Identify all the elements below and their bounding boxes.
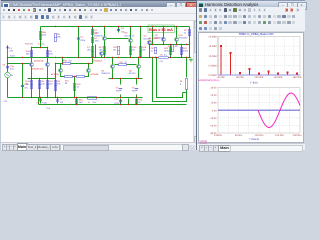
chart2 y labels [210, 87, 217, 136]
node J31 [55, 57, 56, 58]
svg-text:15.00M: 15.00M [209, 45, 217, 48]
ground symbol output [189, 58, 193, 62]
node J44 [130, 57, 131, 58]
node J28 [57, 97, 58, 98]
node J4 [104, 26, 105, 27]
resistor R10 [63, 60, 73, 65]
node J22 [31, 97, 32, 98]
node J32 [62, 57, 63, 58]
svg-text:2k2: 2k2 [68, 60, 72, 63]
node J66 [189, 57, 190, 58]
node J58 [181, 44, 182, 45]
schematic canvas [1, 21, 193, 142]
svg-text:39.6: 39.6 [42, 34, 47, 37]
annotation bias text [148, 25, 175, 43]
node J10 [176, 26, 177, 27]
node J45 [138, 57, 139, 58]
node J50 [136, 78, 137, 79]
wire diode chain branch [92, 27, 94, 58]
node J41 [104, 57, 105, 58]
transistor Q7 [144, 35, 152, 45]
node J8 [152, 26, 153, 27]
svg-text:2n2: 2n2 [60, 101, 64, 104]
node J42 [112, 57, 113, 58]
node J2 [78, 26, 79, 27]
svg-text:0.00: 0.00 [212, 109, 217, 112]
svg-text:BC556B: BC556B [51, 73, 59, 76]
node J65 [186, 57, 187, 58]
wire mirror stub [101, 56, 103, 58]
resistor R19 [75, 99, 83, 105]
capacitor C10 [114, 98, 122, 105]
svg-text:Q9: Q9 [155, 34, 159, 37]
svg-text:BC556B: BC556B [91, 73, 99, 76]
transistor Q10 [175, 34, 189, 42]
wire pnp L emitter [61, 73, 65, 77]
svg-text:20.00: 20.00 [211, 94, 218, 97]
svg-text:Out: Out [47, 107, 51, 110]
wire VAS base link [107, 38, 129, 40]
svg-text:0.000M: 0.000M [209, 74, 217, 77]
resistor D1 [91, 29, 99, 35]
node J7 [140, 26, 141, 27]
transistor Q5 [94, 32, 107, 41]
node J21 [22, 97, 23, 98]
label R4a C1 row [25, 43, 45, 46]
svg-text:30.00: 30.00 [211, 87, 218, 90]
svg-text:L1: L1 [88, 101, 91, 104]
node J39 [88, 63, 89, 64]
wire driver emitter rail [109, 78, 143, 80]
node J1 [55, 26, 56, 27]
wire zobel r branch [136, 99, 138, 105]
wire VAS branch 2 [130, 27, 132, 39]
node J52 [120, 97, 121, 98]
transistor [59, 69, 63, 73]
label input net [10, 55, 16, 58]
svg-text:V3: V3 [3, 63, 6, 66]
wire tail branch 2 [74, 77, 76, 98]
wire lower rail 2 [77, 97, 143, 99]
svg-text:C1a: C1a [10, 65, 15, 68]
chart1 x labels [217, 76, 302, 79]
svg-text:8: 8 [180, 83, 182, 86]
svg-text:-20.00: -20.00 [210, 124, 217, 127]
node J23 [39, 97, 40, 98]
svg-text:10u: 10u [92, 101, 96, 104]
chart2 zero line [218, 109, 300, 111]
capacitor C7a [21, 83, 29, 90]
svg-text:100u: 100u [42, 101, 47, 104]
node J57 [176, 44, 177, 45]
wire RE branch 1 [170, 45, 172, 58]
capacitor C7 [56, 98, 64, 104]
svg-text:1N4: 1N4 [95, 40, 100, 43]
svg-text:2N5551(2N): 2N5551(2N) [32, 68, 44, 71]
wire pnp R top [88, 64, 90, 69]
designator pair Q1 Q2 [32, 60, 44, 71]
svg-text:100.00K: 100.00K [255, 76, 264, 79]
resistor R23 [164, 47, 172, 54]
wire output mid rail [149, 57, 190, 59]
resistor R2 [184, 29, 191, 35]
chart2 frame and grid [218, 88, 300, 134]
svg-text:BD140: BD140 [129, 72, 136, 75]
svg-text:1k: 1k [125, 61, 128, 64]
wire Q2 emitter branch [47, 67, 49, 98]
svg-text:140.00K: 140.00K [274, 76, 283, 79]
node J51 [138, 78, 139, 79]
svg-text:C5: C5 [121, 27, 125, 30]
wire pnp R emitter [85, 73, 89, 77]
resistor D2 [91, 37, 99, 43]
wire V+ feed [40, 27, 42, 48]
node J47 [149, 57, 150, 58]
wire mid stub R [92, 58, 94, 64]
svg-text:47u: 47u [4, 100, 8, 103]
svg-text:BD139-16: BD139-16 [125, 34, 136, 37]
designator Q3a [91, 73, 99, 76]
node J69 [128, 104, 129, 105]
node J19 [39, 78, 40, 79]
resistor R24 [180, 47, 189, 54]
node J55 [163, 44, 164, 45]
resistor R14 [113, 46, 119, 54]
probe arrow input [6, 45, 14, 57]
resistor R9 [54, 80, 61, 90]
resistor R11 [46, 80, 53, 88]
svg-text:2N5401C: 2N5401C [101, 72, 111, 75]
transistor [30, 63, 34, 67]
wire out drv 2 b [176, 42, 178, 45]
svg-text:C2: C2 [80, 35, 84, 38]
svg-text:C7: C7 [60, 98, 64, 101]
capacitor C5 [117, 27, 126, 34]
svg-text:68: 68 [65, 82, 68, 85]
wire link L [56, 63, 63, 65]
capacitor C9 [37, 98, 48, 105]
svg-text:IN: IN [11, 74, 14, 77]
svg-text:Q2.1: Q2.1 [149, 40, 154, 43]
resistor R12 [65, 76, 73, 86]
node J12 [31, 47, 32, 48]
node J15 [7, 63, 8, 64]
resistor R21 [168, 45, 179, 52]
wire load top lead [186, 58, 188, 78]
svg-text:-10.00: -10.00 [210, 117, 217, 120]
chart2 legend [200, 138, 260, 143]
node J33 [78, 57, 79, 58]
svg-text:40V: 40V [116, 90, 120, 93]
wire out drv 2 [176, 27, 178, 38]
wire zobel c branch [120, 99, 122, 105]
wire input link [8, 63, 27, 65]
transistor [46, 63, 50, 67]
toolbar row 1 [1, 7, 197, 14]
svg-text:[2N5551]C: [2N5551]C [34, 60, 44, 63]
wire V2 top lead [136, 79, 138, 85]
node J48 [112, 78, 113, 79]
node J25 [55, 97, 56, 98]
wire lower Q top 1 [112, 58, 114, 65]
wire diff right collector [47, 48, 49, 63]
svg-text:F (Hz): F (Hz) [250, 81, 257, 84]
wire right column [189, 27, 191, 58]
svg-text:100n: 100n [114, 102, 120, 105]
wire ground rail [39, 104, 187, 106]
resistor R4a [26, 50, 33, 56]
capacitor C1a input [6, 65, 15, 71]
wire mid rail [8, 57, 151, 59]
wire emitter rail [28, 78, 56, 80]
node J35 [55, 63, 56, 64]
svg-text:0R22: 0R22 [183, 50, 189, 53]
node J5 [118, 26, 119, 27]
svg-text:200.00u: 200.00u [293, 134, 302, 137]
node J27 [40, 97, 41, 98]
chart1 harmonic stems [220, 45, 298, 75]
node J30 [96, 97, 97, 98]
svg-text:2k5: 2k5 [87, 49, 91, 52]
svg-text:3u3: 3u3 [10, 68, 14, 71]
wire R19 branch [76, 98, 78, 105]
wire input upper lead [7, 58, 9, 73]
node J62 [156, 57, 157, 58]
wire pnp L top [60, 64, 62, 69]
svg-text:Q8: Q8 [129, 69, 133, 72]
wire out drv 1 b [163, 42, 165, 45]
svg-text:(VI): (VI) [160, 60, 164, 63]
wire V1 bottom lead [120, 95, 122, 98]
svg-text:50.00u: 50.00u [235, 134, 243, 137]
svg-text:C9: C9 [37, 101, 41, 104]
node J61 [155, 57, 156, 58]
node J13 [47, 47, 48, 48]
node J29 [87, 97, 88, 98]
wire mid stub [62, 58, 64, 64]
svg-text:434: 434 [49, 53, 53, 56]
wire VAS emitter 2 [130, 43, 132, 58]
node J34 [92, 57, 93, 58]
wire feedback tie [183, 92, 187, 94]
capacitor C2 [77, 35, 86, 42]
wire out drv 1 [163, 27, 165, 38]
toolbar rows [197, 7, 305, 14]
svg-text:[2N5401]C: [2N5401]C [93, 60, 103, 63]
resistor R15 [129, 46, 137, 54]
wire branch C2 [78, 27, 80, 58]
node J70 [136, 104, 137, 105]
node J53 [136, 97, 137, 98]
node J67 [76, 104, 77, 105]
wire V1 top lead [120, 79, 122, 85]
wire pre-driver emitter [149, 45, 151, 58]
battery V1 [116, 86, 122, 92]
wire base left stub [27, 63, 30, 65]
resistor R6a [39, 31, 47, 39]
title bar [197, 0, 305, 7]
wire tail branch [39, 79, 41, 98]
svg-text:V(Out): V(Out) [200, 140, 208, 143]
svg-text:60.00K: 60.00K [236, 76, 244, 79]
resistor R11a [25, 80, 32, 88]
svg-text:20.00K: 20.00K [217, 76, 225, 79]
wire out branch 1 [152, 27, 154, 45]
wire VAS branch 1 [104, 27, 106, 37]
svg-text:2SA1943: 2SA1943 [178, 37, 188, 40]
transistor [100, 52, 104, 56]
chart1 frame [218, 37, 300, 76]
wire VAS emitter 1 [104, 41, 106, 58]
node J3 [92, 26, 93, 27]
node J9 [163, 26, 164, 27]
wire RE branch 2 [181, 45, 183, 58]
node J14 [22, 63, 23, 64]
wire bias res link R [127, 64, 137, 66]
resistor R6 [54, 33, 61, 41]
wire diff pair top [32, 47, 48, 49]
svg-text:RL: RL [180, 80, 184, 83]
svg-text:10.00: 10.00 [211, 102, 218, 105]
wire Q1 emitter branch [31, 67, 33, 98]
wire input lower lead [7, 78, 9, 98]
chart1 trace label [198, 79, 258, 84]
node J17 [22, 57, 23, 58]
node J18 [31, 78, 32, 79]
chart2 x labels [214, 134, 302, 137]
node J59 [186, 44, 187, 45]
resistor RL load [180, 79, 188, 90]
svg-text:40V: 40V [132, 90, 136, 93]
node J56 [170, 44, 171, 45]
wire pot branch [95, 45, 97, 58]
wire output top rail [149, 44, 190, 46]
svg-text:47u: 47u [24, 87, 28, 90]
wire feedback branch [55, 64, 57, 98]
node J64 [181, 57, 182, 58]
chart1 grid [218, 37, 300, 76]
svg-text:Bias = 80 mA: Bias = 80 mA [149, 28, 173, 32]
resistor R12a [77, 76, 85, 78]
wire driver branch [140, 27, 142, 58]
node J46 [140, 57, 141, 58]
transistor Q4 [101, 65, 114, 75]
resistor R4 [46, 50, 53, 56]
node J54 [152, 44, 153, 45]
chart1 baseline [218, 37, 300, 76]
bottom tab bar + h scrollbar [1, 142, 197, 151]
svg-text:0.000m: 0.000m [214, 134, 222, 137]
toolbar row 2 [1, 14, 197, 21]
svg-text:10.00M: 10.00M [209, 55, 217, 58]
transistor Q9 [155, 34, 166, 42]
wire bias res link L [115, 64, 119, 66]
svg-text:R10: R10 [63, 60, 68, 63]
chart1 y labels [209, 36, 217, 78]
inductor L1 [88, 97, 97, 104]
svg-text:39k: 39k [57, 36, 61, 39]
node J37 [74, 76, 75, 77]
svg-text:2N5551C: 2N5551C [94, 35, 104, 38]
svg-text:HARM(ONID(V(RL))): HARM(ONID(V(RL))) [198, 79, 220, 82]
wire lower Q bottom 2 [138, 69, 140, 79]
resistor R16 [139, 46, 146, 56]
chart1 title [239, 32, 274, 36]
svg-text:24k: 24k [9, 50, 13, 53]
ammeter inline output [159, 54, 169, 63]
svg-text:150.00u: 150.00u [275, 134, 284, 137]
svg-text:E1: E1 [9, 47, 12, 50]
wire lower Q top 2 [138, 58, 140, 65]
svg-text:47k: 47k [57, 83, 61, 86]
svg-text:47p: 47p [41, 43, 45, 46]
svg-text:3u3a: 3u3a [10, 55, 16, 58]
node J40 [95, 57, 96, 58]
resistor C8 [151, 47, 157, 53]
svg-text:434: 434 [29, 43, 33, 46]
svg-text:TPBO C_KPBA_Balun.CIR: TPBO C_KPBA_Balun.CIR [239, 32, 274, 36]
wire zobel mid [128, 99, 130, 105]
resistor R22 [135, 99, 142, 105]
node J24 [47, 97, 48, 98]
wire V2 bottom lead [136, 95, 138, 98]
node J20 [47, 78, 48, 79]
resistor R8 [38, 80, 45, 88]
svg-text:220p: 220p [80, 39, 86, 42]
node J38 [74, 97, 75, 98]
wire top supply rail [41, 26, 190, 28]
node J60 [152, 57, 153, 58]
chart panel (white) [198, 32, 304, 144]
designator Q3 [51, 73, 59, 76]
node J6 [130, 26, 131, 27]
wire ground stub [38, 98, 40, 105]
wire lower Q bottom 1 [112, 69, 114, 79]
node J16 [7, 57, 8, 58]
svg-text:180.00K: 180.00K [293, 76, 302, 79]
wire emitter center [73, 76, 77, 78]
svg-text:220: 220 [41, 83, 45, 86]
resistor R13 [99, 46, 106, 54]
wire diff left collector [31, 48, 33, 63]
node J36 [62, 63, 63, 64]
svg-text:T (Secs): T (Secs) [249, 138, 259, 141]
svg-text:4R7: 4R7 [174, 45, 179, 48]
resistor R17 bias link [119, 61, 128, 66]
battery V2 [132, 86, 138, 92]
node J68 [120, 104, 121, 105]
svg-text:0R22: 0R22 [164, 50, 170, 53]
svg-text:Q10: Q10 [178, 34, 183, 37]
node J11 [40, 47, 41, 48]
svg-text:Q7: Q7 [144, 35, 148, 38]
designator Q4a [93, 60, 103, 63]
bottom tab bar [197, 143, 305, 150]
title bar [1, 0, 197, 7]
svg-text:Q6: Q6 [125, 32, 129, 35]
wire feedback loop [157, 58, 183, 98]
chart2 V(Out) sine trace [258, 93, 300, 127]
svg-text:20.00M: 20.00M [209, 36, 217, 39]
transistor [87, 69, 91, 73]
node J63 [170, 57, 171, 58]
svg-text:5.000M: 5.000M [209, 64, 217, 67]
label out node [47, 107, 51, 110]
transistor Q6 [125, 32, 136, 43]
wire shunt branch [22, 64, 24, 98]
transistor Q8 [129, 65, 141, 75]
node J49 [120, 78, 121, 79]
